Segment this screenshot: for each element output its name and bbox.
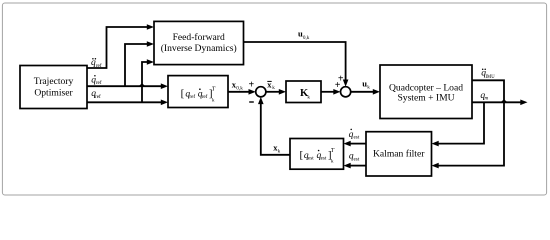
arrow into ref vector box input 1 (161, 83, 168, 89)
svg-text:k: k (367, 84, 370, 90)
wire qdot_ref from Trajectory Optimiser (87, 85, 161, 87)
svg-text:ref: ref (96, 62, 102, 69)
wire Kalman filter output qdot_est to est vector box (351, 143, 367, 145)
label qddot_ref (91, 58, 102, 69)
arrow into S2 (333, 89, 340, 95)
svg-text:System + IMU: System + IMU (397, 93, 454, 104)
crossover bump at q_m and qddot_IMU wire crossing (501, 99, 507, 102)
svg-text:est: est (354, 156, 360, 162)
arrow into Kalman filter input 2 (432, 163, 439, 169)
svg-text:ref: ref (202, 93, 208, 100)
outer frame (2, 3, 546, 195)
arrow into est vector box input 2 (344, 163, 351, 169)
wire branch q_ref up to Feed-forward (142, 62, 148, 102)
svg-text:k: k (278, 148, 281, 154)
svg-text:[: [ (300, 149, 304, 161)
svg-text:est: est (308, 155, 314, 161)
svg-text:[: [ (181, 88, 185, 100)
arrow into Quadcopter (373, 89, 380, 95)
arrow into Feed-forward input 1 (147, 24, 154, 30)
arrow into Kalman filter input 1 (432, 141, 439, 147)
block Quadcopter - Load System + IMU (380, 65, 472, 119)
svg-text:est: est (354, 135, 360, 141)
svg-text:m: m (485, 95, 489, 101)
summing junction S2 (341, 87, 351, 97)
label u_0k (298, 29, 310, 41)
label xbar_k (267, 80, 275, 92)
wire Feed-forward output u_0k to S2 (244, 42, 346, 80)
arrow into est vector box input 1 (344, 141, 351, 147)
arrow into ref vector box input 2 (161, 100, 168, 106)
wire feedback x_k from est vector box to S1 (261, 104, 290, 155)
wire K_k to S2 (321, 91, 334, 93)
svg-text:+: + (335, 80, 341, 91)
svg-text:IMU: IMU (486, 75, 496, 80)
arrow into S1 bottom (258, 97, 264, 104)
block Feed-forward (Inverse Dynamics) (154, 21, 244, 64)
svg-text:0,k: 0,k (236, 86, 243, 92)
svg-text:k: k (307, 95, 310, 101)
svg-text:Kalman filter: Kalman filter (373, 149, 425, 160)
block reference state vector [q_ref qdot_ref]T_k (168, 76, 228, 108)
wire qddot_ref from Trajectory Optimiser (87, 27, 148, 68)
arrow into Feed-forward input 3 (147, 59, 154, 65)
label x_0k (232, 80, 243, 92)
arrow into Feed-forward input 2 (147, 41, 154, 47)
svg-text:ref: ref (189, 93, 195, 100)
arrow into S2 top (343, 80, 349, 87)
label qdot_est (349, 129, 360, 141)
minus sign S1 (249, 101, 254, 103)
arrow into K_k (279, 89, 286, 95)
wire S2 to Quadcopter (351, 91, 374, 93)
label x_k (273, 142, 280, 154)
wire qddot_IMU from Quadcopter down to Kalman filter (439, 80, 505, 165)
wire q_m measurement output (472, 101, 521, 103)
svg-text:ref: ref (95, 93, 101, 100)
label q_m (480, 91, 488, 102)
wire q_ref from Trajectory Optimiser (87, 101, 161, 103)
svg-text:+: + (249, 80, 255, 91)
block estimated state vector [q_est qdot_est]T_k (290, 139, 344, 170)
arrow q_m external output (520, 100, 527, 106)
wire branch qdot_ref up to Feed-forward (125, 44, 148, 86)
label q_ref (91, 89, 101, 100)
label qddot_IMU (481, 68, 495, 79)
block Kalman filter (366, 132, 432, 176)
wire ref vector box to S1 (228, 91, 249, 93)
wire Kalman filter output q_est to est vector box (351, 165, 367, 167)
svg-text:Feed-forward: Feed-forward (173, 32, 225, 43)
svg-text:Optimiser: Optimiser (34, 87, 73, 98)
svg-text:est: est (321, 155, 327, 161)
svg-text:k: k (272, 85, 275, 91)
wire q_m branch down to Kalman filter (439, 102, 485, 143)
wire S1 to K_k (266, 91, 279, 93)
block Trajectory Optimiser (20, 66, 87, 109)
crossover bump at qdot_ref and q_ref branch wire crossing (139, 83, 145, 86)
label qdot_ref (91, 75, 102, 86)
svg-text:0,k: 0,k (303, 35, 310, 41)
label q_est (349, 152, 360, 163)
svg-text:Trajectory: Trajectory (34, 76, 74, 87)
svg-text:(Inverse Dynamics): (Inverse Dynamics) (161, 43, 237, 54)
block K_k (286, 81, 321, 103)
svg-text:ref: ref (96, 79, 102, 86)
arrow into S1 (249, 89, 256, 95)
label u_k (362, 78, 370, 90)
summing junction S1 (256, 87, 266, 97)
